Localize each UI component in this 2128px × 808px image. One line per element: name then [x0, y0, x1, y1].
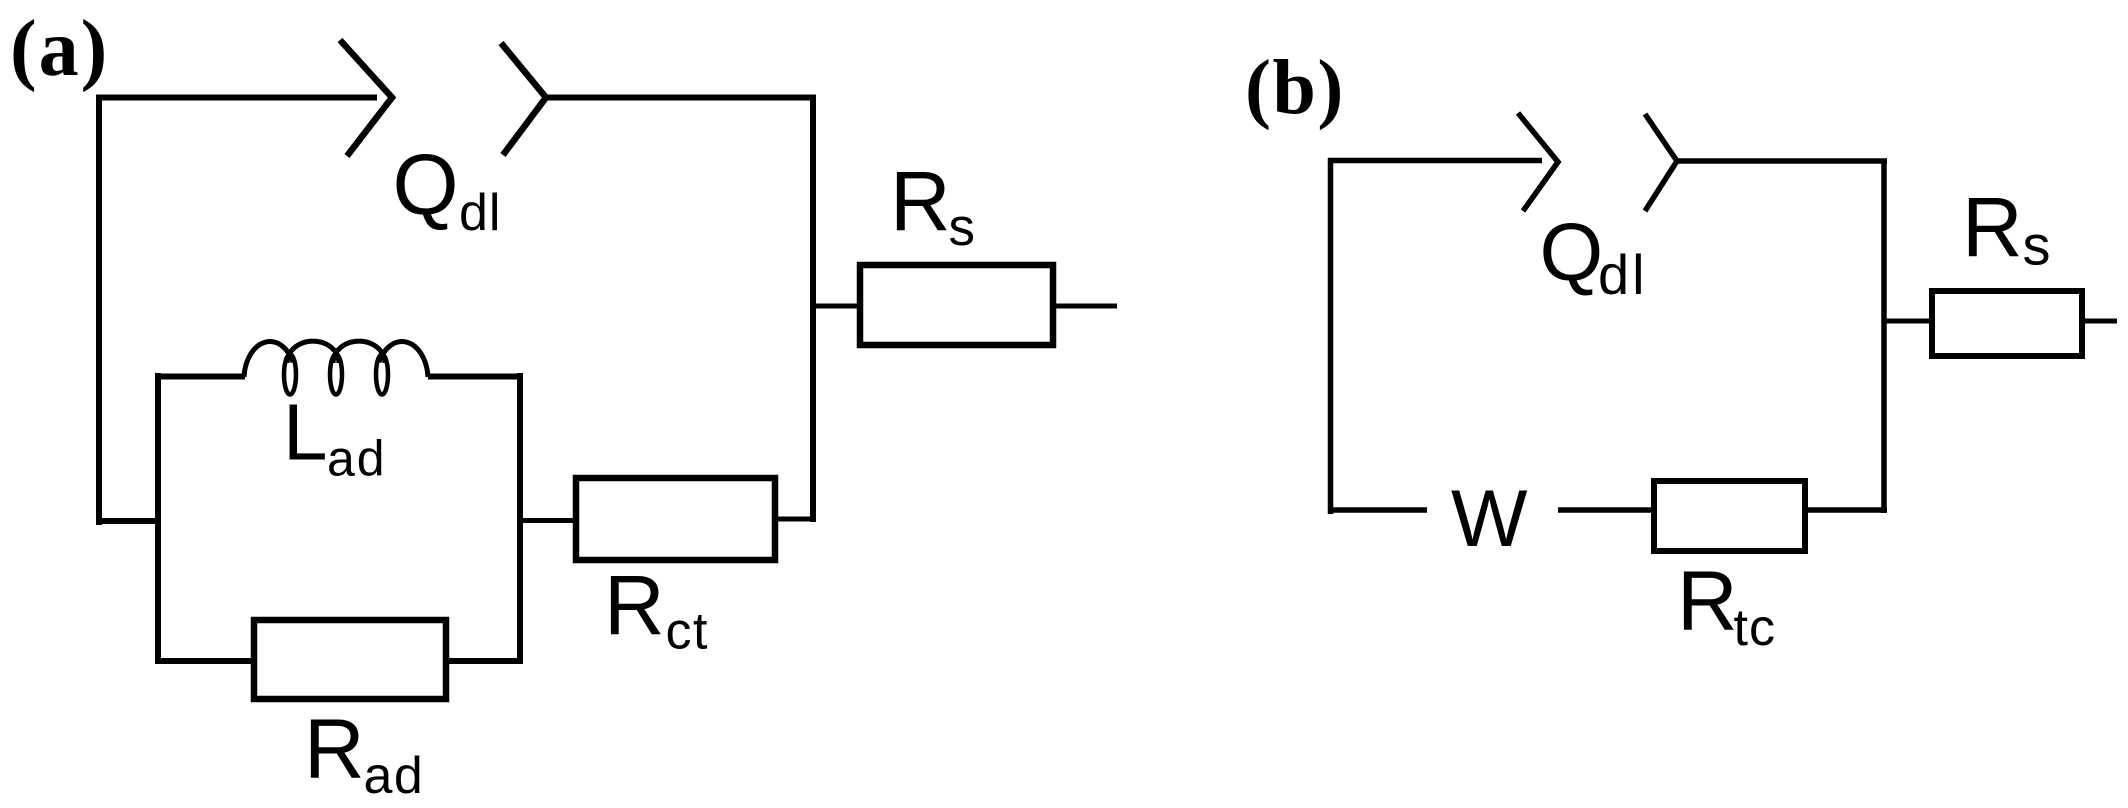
CPE Q_dl (b) left chevron	[1518, 113, 1558, 211]
label R_s (a)	[890, 154, 975, 257]
wire: R_s output	[1053, 304, 1117, 309]
wire: R_tc to right vertical	[1805, 507, 1887, 513]
wire: parallel block top-left to inductor	[155, 374, 245, 380]
CPE Q_dl right chevron	[501, 43, 546, 155]
label Q_dl (b)	[1540, 207, 1648, 306]
label R_s (b)	[1962, 180, 2051, 277]
label R_ad	[304, 702, 424, 806]
wire: (a) right vertical	[810, 95, 816, 523]
svg-text:R: R	[604, 558, 665, 652]
svg-text:R: R	[304, 702, 365, 796]
resistor R_tc	[1654, 481, 1805, 551]
wire: parallel block bottom-right	[443, 658, 521, 664]
svg-text:dl: dl	[1598, 243, 1648, 306]
wire: parallel block bottom-left	[155, 658, 257, 664]
svg-text:R: R	[890, 154, 951, 248]
label R_ct	[604, 558, 709, 661]
wire: (a) top horizontal to CPE	[96, 95, 377, 101]
resistor R_s (a)	[860, 265, 1053, 345]
svg-text:s: s	[949, 198, 976, 257]
svg-text:W: W	[1451, 474, 1528, 564]
wire: (b) bottom-left stub to W	[1328, 507, 1427, 513]
wire: CPE to top-right corner	[546, 95, 816, 101]
label Q_dl	[393, 138, 502, 242]
wire: (b) left vertical	[1328, 158, 1334, 514]
wire: (b) CPE to top-right corner	[1677, 158, 1887, 164]
wire: (b) right vertical	[1881, 159, 1887, 514]
inductor L_ad coil	[244, 341, 428, 394]
wire: (b) R_s output	[2082, 319, 2117, 324]
svg-text:L: L	[283, 388, 328, 477]
resistor R_ad	[254, 620, 446, 699]
svg-text:Q: Q	[393, 138, 459, 233]
svg-text:ct: ct	[666, 603, 709, 661]
wire: junction to R_s	[813, 304, 862, 309]
resistor R_s (b)	[1932, 291, 2082, 356]
wire: W to R_tc	[1558, 507, 1656, 513]
label R_tc	[1677, 554, 1776, 658]
svg-text:ad: ad	[327, 431, 387, 487]
wire: R_ct to right vertical	[775, 517, 813, 522]
svg-text:(b): (b)	[1245, 44, 1345, 131]
svg-text:dl: dl	[459, 184, 501, 242]
resistor R_ct	[576, 478, 775, 560]
svg-text:s: s	[2023, 214, 2051, 277]
CPE Q_dl left chevron	[340, 40, 392, 156]
svg-text:R: R	[1677, 554, 1738, 648]
svg-text:ad: ad	[364, 747, 425, 805]
svg-text:R: R	[1962, 180, 2023, 274]
wire: (b) top horizontal to CPE	[1328, 158, 1542, 164]
wire: (a) left vertical	[96, 95, 102, 526]
CPE Q_dl (b) right chevron	[1645, 114, 1677, 211]
wire: parallel block to R_ct	[519, 518, 578, 523]
wire: parallel block right edge	[517, 373, 523, 664]
svg-text:Q: Q	[1540, 207, 1604, 298]
svg-text:(a): (a)	[10, 5, 109, 93]
wire: (b) junction to R_s	[1884, 319, 1934, 324]
svg-text:tc: tc	[1734, 599, 1776, 657]
wire: parallel block left edge	[155, 373, 161, 664]
label L_ad	[283, 388, 387, 487]
wire: left vertical to parallel block stub	[96, 518, 161, 524]
wire: inductor to parallel block top-right	[428, 374, 523, 380]
